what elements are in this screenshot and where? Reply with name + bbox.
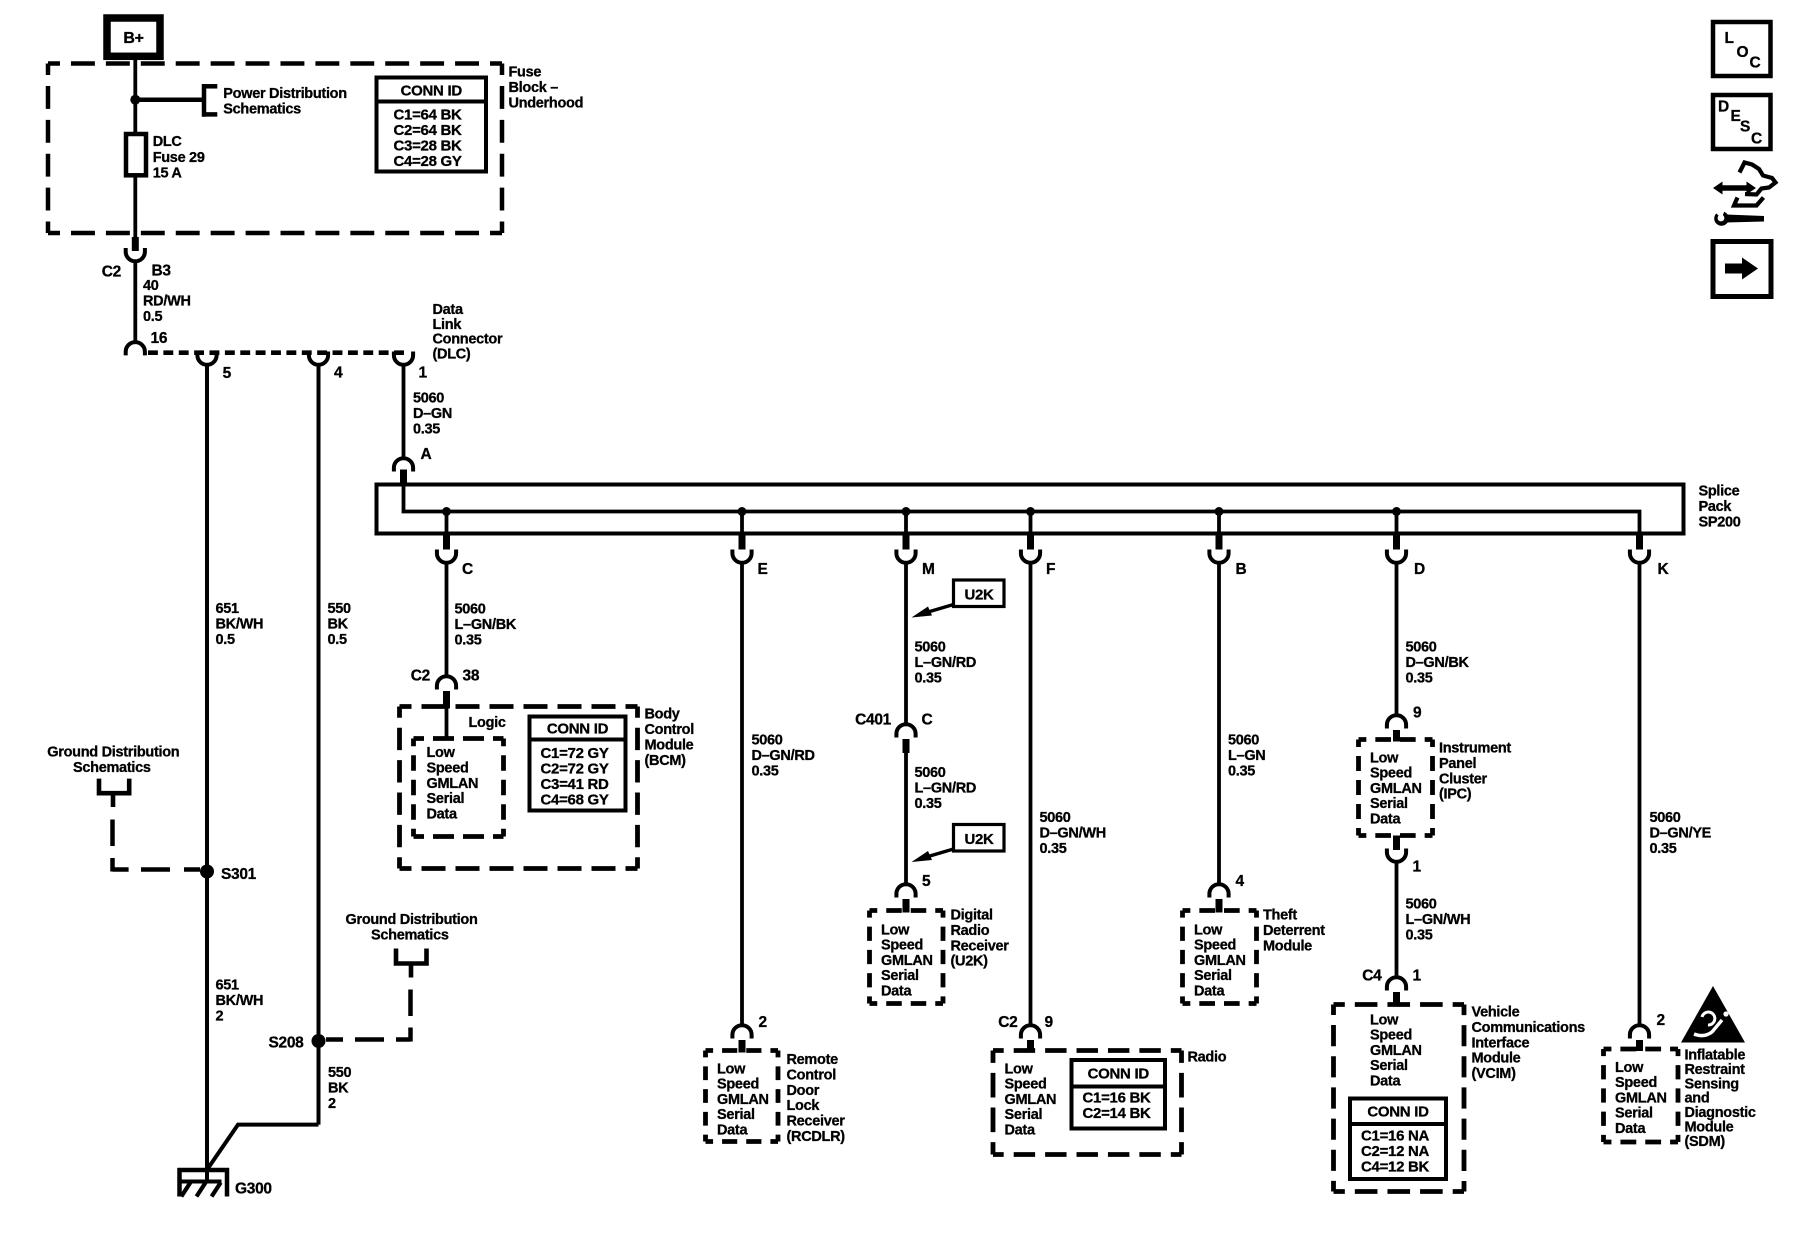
icon forward arrow box	[1713, 242, 1771, 297]
label Digital Radio Receiver (U2K)	[951, 908, 1010, 970]
svg-text:L–GN/RD: L–GN/RD	[915, 655, 977, 671]
power distribution reference bracket	[202, 84, 217, 117]
wire 550 BK to ground	[208, 1125, 319, 1169]
fuse F29 DLC Fuse 29 15 A	[126, 134, 205, 182]
splice output connector C	[437, 535, 473, 578]
svg-text:C2=72 GY: C2=72 GY	[541, 761, 609, 778]
label Vehicle Communications Interface Module (VCIM)	[1472, 1005, 1586, 1083]
svg-text:Module: Module	[1472, 1051, 1521, 1067]
svg-text:0.35: 0.35	[1650, 841, 1677, 857]
module SDM box	[1604, 1049, 1679, 1142]
svg-text:550: 550	[328, 601, 352, 617]
label Logic	[469, 715, 506, 731]
splice tap wire M	[904, 512, 908, 536]
svg-text:M: M	[922, 561, 935, 578]
svg-text:1: 1	[419, 365, 428, 382]
label 40 RD/WH 0.5	[143, 278, 191, 325]
wire B+ to fuse	[133, 56, 137, 135]
splice tap junction E	[738, 507, 747, 516]
svg-text:0.35: 0.35	[1040, 841, 1067, 857]
svg-text:G300: G300	[235, 1181, 272, 1198]
label 5060 L-GN/BK 0.35	[455, 602, 517, 649]
svg-text:Pack: Pack	[1699, 499, 1733, 515]
svg-text:S301: S301	[221, 866, 257, 883]
wire 5060 D-GN/BK 0.35	[1395, 563, 1399, 717]
splice output connector K	[1630, 535, 1670, 578]
svg-text:C3=41 RD: C3=41 RD	[541, 776, 610, 793]
svg-text:A: A	[421, 446, 432, 463]
wire fuse to C2	[133, 175, 137, 240]
svg-text:0.35: 0.35	[1406, 928, 1433, 944]
svg-text:Serial: Serial	[1615, 1106, 1653, 1122]
svg-text:Serial: Serial	[427, 791, 465, 807]
svg-text:Data: Data	[433, 302, 464, 318]
label Inflatable Restraint Sensing and Diagnostic Module (SDM)	[1685, 1048, 1756, 1150]
svg-text:2: 2	[759, 1014, 767, 1031]
svg-text:Speed: Speed	[717, 1077, 759, 1093]
svg-text:651: 651	[216, 601, 240, 617]
svg-text:Low: Low	[427, 745, 456, 761]
svg-text:Instrument: Instrument	[1439, 741, 1511, 757]
wire 5060 L-GN/RD 0.35 lower	[904, 752, 908, 886]
label 5060 L-GN/RD 0.35 lower	[915, 765, 977, 812]
svg-text:1: 1	[1413, 859, 1422, 876]
splice output connector M	[896, 535, 934, 578]
svg-text:(IPC): (IPC)	[1439, 787, 1472, 803]
label 651 BK/WH 0.5	[216, 601, 264, 648]
svg-text:C1=16 BK: C1=16 BK	[1083, 1090, 1152, 1107]
svg-text:5060: 5060	[1650, 810, 1681, 826]
svg-text:Serial: Serial	[881, 968, 919, 984]
wire 651 BK/WH 0.5	[205, 364, 209, 1171]
svg-text:0.5: 0.5	[216, 632, 235, 648]
wire branch to power distribution reference	[135, 97, 203, 102]
svg-text:2: 2	[328, 1096, 336, 1112]
svg-text:40: 40	[143, 278, 159, 294]
splice tap wire B	[1217, 512, 1221, 536]
connector pin 2 RCDLR	[732, 1014, 766, 1053]
connector ID table radio	[1072, 1060, 1166, 1129]
svg-text:Low: Low	[1005, 1062, 1034, 1078]
svg-text:D–GN/BK: D–GN/BK	[1406, 655, 1470, 671]
svg-text:5060: 5060	[1040, 810, 1071, 826]
svg-text:Serial: Serial	[1194, 968, 1232, 984]
svg-text:Schematics: Schematics	[371, 928, 449, 944]
label Splice Pack SP200	[1699, 484, 1741, 531]
svg-text:Serial: Serial	[1005, 1107, 1043, 1123]
svg-text:C: C	[1750, 55, 1761, 72]
label 550 BK 0.5	[328, 601, 352, 648]
svg-text:GMLAN: GMLAN	[1194, 953, 1246, 969]
label 5060 D-GN/BK 0.35	[1406, 640, 1470, 687]
module radio box	[993, 1051, 1182, 1155]
wire 5060 D-GN/YE 0.35	[1638, 563, 1642, 1027]
svg-text:C2: C2	[998, 1014, 1017, 1031]
svg-text:Link: Link	[433, 317, 463, 333]
svg-text:Serial: Serial	[717, 1107, 755, 1123]
wire 5060 L-GN/BK 0.35	[445, 563, 449, 678]
svg-text:C: C	[1751, 131, 1762, 148]
connector ID table BCM	[530, 717, 626, 811]
svg-text:Connector: Connector	[433, 332, 503, 348]
splice tap wire F	[1029, 512, 1033, 536]
label 5060 L-GN/WH 0.35	[1406, 897, 1471, 944]
splice S301	[200, 865, 257, 884]
svg-text:Control: Control	[645, 722, 694, 738]
svg-text:D: D	[1718, 99, 1729, 116]
svg-text:38: 38	[463, 668, 480, 685]
svg-text:Control: Control	[787, 1067, 836, 1083]
svg-text:B: B	[1236, 561, 1247, 578]
svg-text:0.35: 0.35	[1228, 764, 1255, 780]
label 5060 L-GN 0.35	[1228, 733, 1265, 780]
splice output connector B	[1209, 535, 1246, 578]
label Fuse Block - Underhood	[509, 65, 584, 112]
ground reference bracket left	[99, 779, 129, 807]
label 550 BK 2	[328, 1065, 352, 1112]
svg-text:Speed: Speed	[1194, 938, 1236, 954]
svg-text:Fuse 29: Fuse 29	[153, 150, 205, 166]
svg-text:C4=68 GY: C4=68 GY	[541, 792, 609, 809]
svg-text:(VCIM): (VCIM)	[1472, 1066, 1517, 1082]
svg-text:Cluster: Cluster	[1439, 771, 1488, 787]
svg-text:F: F	[1046, 561, 1055, 578]
svg-text:9: 9	[1413, 705, 1422, 722]
label Power Distribution Schematics	[223, 86, 346, 118]
svg-text:2: 2	[216, 1009, 224, 1025]
svg-text:Schematics: Schematics	[223, 102, 301, 118]
svg-text:0.35: 0.35	[915, 671, 942, 687]
connector C401 pin C	[855, 712, 932, 754]
junction	[130, 95, 140, 105]
U2K callout lower	[912, 825, 1005, 863]
svg-text:C2=14 BK: C2=14 BK	[1083, 1105, 1152, 1122]
wire 5060 L-GN/RD 0.35 upper	[904, 563, 908, 726]
svg-text:C1=72 GY: C1=72 GY	[541, 745, 609, 762]
svg-text:Low: Low	[1194, 923, 1223, 939]
connector pin 2 SDM	[1630, 1012, 1665, 1051]
svg-text:GMLAN: GMLAN	[717, 1092, 769, 1108]
svg-text:RD/WH: RD/WH	[143, 294, 191, 310]
svg-text:Receiver: Receiver	[787, 1114, 846, 1130]
svg-text:S208: S208	[269, 1035, 305, 1052]
module IPC box	[1359, 740, 1433, 836]
splice tap wire E	[740, 512, 744, 536]
svg-text:Block –: Block –	[509, 80, 559, 96]
DLC pin 1	[394, 352, 428, 382]
svg-text:L–GN/RD: L–GN/RD	[915, 781, 977, 797]
svg-text:C2: C2	[102, 264, 121, 281]
label 5060 L-GN/RD 0.35 upper	[915, 640, 977, 687]
splice S208	[269, 1034, 326, 1052]
svg-text:Deterrent: Deterrent	[1263, 923, 1325, 939]
svg-text:Low: Low	[1370, 751, 1399, 767]
svg-text:(U2K): (U2K)	[951, 954, 989, 970]
connector C4 pin 1 VCIM	[1362, 968, 1421, 1007]
svg-text:0.35: 0.35	[455, 633, 482, 649]
connector pin 4 theft deterrent	[1209, 873, 1244, 913]
svg-text:Power Distribution: Power Distribution	[223, 86, 346, 102]
splice tap junction C	[442, 507, 451, 516]
wire 40 RD/WH 0.5	[133, 261, 137, 344]
svg-text:Splice: Splice	[1699, 484, 1740, 500]
svg-text:Lock: Lock	[787, 1098, 821, 1114]
svg-text:0.5: 0.5	[143, 309, 162, 325]
svg-text:0.35: 0.35	[915, 796, 942, 812]
svg-text:Low: Low	[1370, 1013, 1399, 1029]
svg-text:0.5: 0.5	[328, 632, 347, 648]
svg-text:Serial: Serial	[1370, 796, 1408, 812]
svg-text:Digital: Digital	[951, 908, 993, 924]
wire 550 BK 0.5	[317, 364, 321, 1125]
wire into BCM logic	[445, 708, 449, 739]
splice tap junction B	[1215, 507, 1224, 516]
svg-text:DLC: DLC	[153, 134, 183, 150]
dashed wire to S208	[326, 990, 411, 1042]
splice tap wire C	[445, 512, 449, 536]
svg-text:C3=28 BK: C3=28 BK	[394, 138, 463, 155]
svg-text:0.35: 0.35	[752, 764, 779, 780]
label 5060 D-GN/WH 0.35	[1040, 810, 1106, 857]
svg-text:5060: 5060	[1406, 897, 1437, 913]
splice tap junction M	[902, 507, 911, 516]
svg-text:CONN ID: CONN ID	[401, 83, 463, 100]
connector ID table VCIM	[1350, 1099, 1446, 1180]
BCM low speed GMLAN serial data box	[414, 739, 504, 837]
svg-text:GMLAN: GMLAN	[1615, 1090, 1667, 1106]
svg-text:Speed: Speed	[881, 938, 923, 954]
module VCIM box	[1334, 1005, 1465, 1192]
svg-text:0.35: 0.35	[1406, 671, 1433, 687]
svg-text:Data: Data	[1370, 1073, 1401, 1089]
module RCDLR box	[706, 1051, 779, 1142]
svg-text:Data: Data	[1194, 983, 1225, 999]
wire 5060 D-GN/WH 0.35	[1029, 563, 1033, 1027]
svg-text:Low: Low	[1615, 1060, 1644, 1076]
svg-text:C: C	[462, 561, 473, 578]
svg-text:651: 651	[216, 978, 240, 994]
svg-text:D–GN/RD: D–GN/RD	[752, 748, 815, 764]
label Body Control Module (BCM)	[645, 707, 694, 770]
ground reference bracket right	[396, 949, 427, 978]
svg-text:Data: Data	[881, 983, 912, 999]
icon DESC box	[1713, 95, 1771, 149]
svg-text:(SDM): (SDM)	[1685, 1134, 1726, 1150]
fuse block underhood dashed box	[48, 64, 502, 234]
svg-text:GMLAN: GMLAN	[1005, 1092, 1057, 1108]
svg-text:Serial: Serial	[1370, 1058, 1408, 1074]
airbag warning triangle	[1681, 986, 1745, 1043]
svg-text:5060: 5060	[1228, 733, 1259, 749]
svg-text:Underhood: Underhood	[509, 96, 584, 112]
svg-text:16: 16	[151, 330, 168, 347]
svg-text:Speed: Speed	[1370, 766, 1412, 782]
splice tap wire D	[1395, 512, 1399, 536]
module theft deterrent box	[1183, 911, 1257, 1004]
svg-text:4: 4	[1236, 873, 1245, 890]
connector A	[394, 446, 432, 486]
svg-text:Logic: Logic	[469, 715, 506, 731]
label Ground Distribution Schematics right	[346, 912, 478, 944]
svg-text:(DLC): (DLC)	[433, 346, 471, 362]
svg-text:GMLAN: GMLAN	[1370, 781, 1422, 797]
svg-text:Ground Distribution: Ground Distribution	[346, 912, 478, 928]
svg-text:D–GN/WH: D–GN/WH	[1040, 826, 1106, 842]
svg-text:C2: C2	[411, 668, 430, 685]
connector pin 5 U2K	[896, 873, 931, 913]
svg-text:L–GN/BK: L–GN/BK	[455, 617, 517, 633]
splice bus wire	[404, 486, 1640, 535]
label Instrument Panel Cluster (IPC)	[1439, 741, 1511, 803]
svg-text:Module: Module	[1263, 938, 1312, 954]
svg-text:Speed: Speed	[1615, 1075, 1657, 1091]
svg-text:Speed: Speed	[1370, 1028, 1412, 1044]
svg-text:Panel: Panel	[1439, 756, 1476, 772]
module digital radio receiver box	[870, 911, 944, 1004]
svg-text:15 A: 15 A	[153, 166, 183, 182]
svg-text:1: 1	[1413, 968, 1422, 985]
svg-text:C4=28 GY: C4=28 GY	[394, 153, 462, 170]
svg-text:Data: Data	[427, 807, 458, 823]
svg-text:5: 5	[922, 873, 931, 890]
svg-text:Ground Distribution: Ground Distribution	[47, 745, 179, 761]
svg-text:Module: Module	[645, 738, 694, 754]
svg-text:5060: 5060	[752, 733, 783, 749]
connector pin 9 IPC	[1387, 705, 1422, 742]
svg-text:C2=64 BK: C2=64 BK	[394, 122, 463, 139]
svg-text:Body: Body	[645, 707, 680, 723]
svg-text:Receiver: Receiver	[951, 938, 1010, 954]
svg-text:L–GN: L–GN	[1228, 748, 1265, 764]
svg-text:L–GN/WH: L–GN/WH	[1406, 912, 1471, 928]
svg-text:C4=12 BK: C4=12 BK	[1361, 1159, 1430, 1176]
svg-text:Fuse: Fuse	[509, 65, 542, 81]
splice output connector D	[1387, 535, 1425, 578]
svg-text:C401: C401	[855, 712, 892, 729]
svg-text:4: 4	[334, 365, 343, 382]
svg-text:O: O	[1737, 44, 1749, 61]
svg-text:D–GN/YE: D–GN/YE	[1650, 826, 1712, 842]
DLC connector 16	[126, 342, 145, 355]
svg-text:Speed: Speed	[427, 760, 469, 776]
power symbol B+	[107, 18, 160, 56]
svg-text:Data: Data	[717, 1122, 748, 1138]
splice output connector E	[732, 535, 767, 578]
svg-text:2: 2	[1657, 1012, 1665, 1029]
svg-text:(BCM): (BCM)	[645, 753, 687, 769]
svg-text:CONN ID: CONN ID	[1367, 1104, 1429, 1121]
svg-text:Remote: Remote	[787, 1052, 839, 1068]
label Remote Control Door Lock Receiver (RCDLR)	[787, 1052, 846, 1145]
svg-text:S: S	[1740, 119, 1750, 136]
wire 5060 D-GN 0.35 DLC to splice	[402, 364, 406, 461]
svg-text:5060: 5060	[455, 602, 486, 618]
DLC dashed line	[148, 350, 404, 355]
icon LOC box	[1713, 22, 1771, 76]
svg-text:BK: BK	[328, 617, 349, 633]
wire 5060 L-GN/WH 0.35	[1395, 862, 1399, 979]
svg-text:U2K: U2K	[964, 831, 994, 848]
svg-text:D–GN: D–GN	[413, 406, 452, 422]
svg-text:B3: B3	[152, 263, 172, 280]
dashed wire to S301	[113, 820, 201, 872]
svg-text:(RCDLR): (RCDLR)	[787, 1129, 846, 1145]
svg-text:5060: 5060	[413, 391, 444, 407]
splice output connector F	[1021, 535, 1055, 578]
label Radio	[1188, 1050, 1227, 1066]
svg-text:550: 550	[328, 1065, 352, 1081]
svg-text:U2K: U2K	[964, 587, 994, 604]
icon vehicle service	[1711, 163, 1776, 226]
splice pack SP200 box	[377, 485, 1684, 534]
svg-text:C4: C4	[1362, 968, 1382, 985]
svg-text:C1=64 BK: C1=64 BK	[394, 107, 463, 124]
connector C2 pin 38 BCM	[411, 668, 480, 709]
label Ground Distribution Schematics left	[47, 745, 179, 777]
svg-text:C: C	[922, 712, 933, 729]
svg-text:E: E	[758, 561, 768, 578]
svg-text:BK/WH: BK/WH	[216, 993, 264, 1009]
svg-text:Data: Data	[1370, 811, 1401, 827]
svg-text:C2=12 NA: C2=12 NA	[1361, 1143, 1430, 1160]
label 5060 D-GN 0.35	[413, 391, 452, 438]
svg-text:Low: Low	[717, 1062, 746, 1078]
svg-text:Theft: Theft	[1263, 908, 1297, 924]
connector C2 pin 9 radio	[998, 1014, 1053, 1053]
connector pin 1 IPC output	[1387, 836, 1422, 876]
wire 5060 L-GN 0.35	[1217, 563, 1221, 886]
svg-text:Radio: Radio	[951, 923, 990, 939]
svg-text:5060: 5060	[1406, 640, 1437, 656]
svg-text:GMLAN: GMLAN	[1370, 1043, 1422, 1059]
svg-text:Door: Door	[787, 1083, 820, 1099]
DLC pin 5	[197, 352, 231, 383]
module BCM dashed box	[400, 707, 638, 869]
svg-text:GMLAN: GMLAN	[881, 953, 933, 969]
svg-text:Vehicle: Vehicle	[1472, 1005, 1520, 1021]
svg-text:Data: Data	[1005, 1122, 1036, 1138]
splice tap junction D	[1392, 507, 1401, 516]
connector ID table fuse block	[377, 78, 487, 172]
svg-text:5060: 5060	[915, 765, 946, 781]
svg-text:Communications: Communications	[1472, 1020, 1586, 1036]
label 5060 D-GN/RD 0.35	[752, 733, 815, 780]
svg-text:L: L	[1725, 30, 1734, 47]
label pin 16	[151, 330, 168, 347]
svg-text:Speed: Speed	[1005, 1077, 1047, 1093]
svg-text:CONN ID: CONN ID	[1088, 1066, 1150, 1083]
svg-text:BK: BK	[328, 1081, 349, 1097]
svg-text:5060: 5060	[915, 640, 946, 656]
svg-text:Schematics: Schematics	[73, 760, 151, 776]
svg-text:B+: B+	[123, 30, 143, 47]
svg-text:C1=16 NA: C1=16 NA	[1361, 1128, 1430, 1145]
label 651 BK/WH 2	[216, 978, 264, 1025]
label 5060 D-GN/YE 0.35	[1650, 810, 1712, 857]
label Theft Deterrent Module	[1263, 908, 1325, 955]
svg-text:SP200: SP200	[1699, 515, 1741, 531]
svg-text:BK/WH: BK/WH	[216, 617, 264, 633]
svg-text:9: 9	[1045, 1014, 1054, 1031]
DLC pin 4	[309, 352, 343, 382]
svg-text:5: 5	[223, 365, 232, 382]
svg-text:Data: Data	[1615, 1121, 1646, 1137]
svg-text:CONN ID: CONN ID	[547, 721, 609, 738]
connector C2 pin B3	[102, 237, 172, 281]
svg-text:Interface: Interface	[1472, 1035, 1530, 1051]
svg-text:K: K	[1658, 561, 1670, 578]
svg-text:GMLAN: GMLAN	[427, 776, 479, 792]
